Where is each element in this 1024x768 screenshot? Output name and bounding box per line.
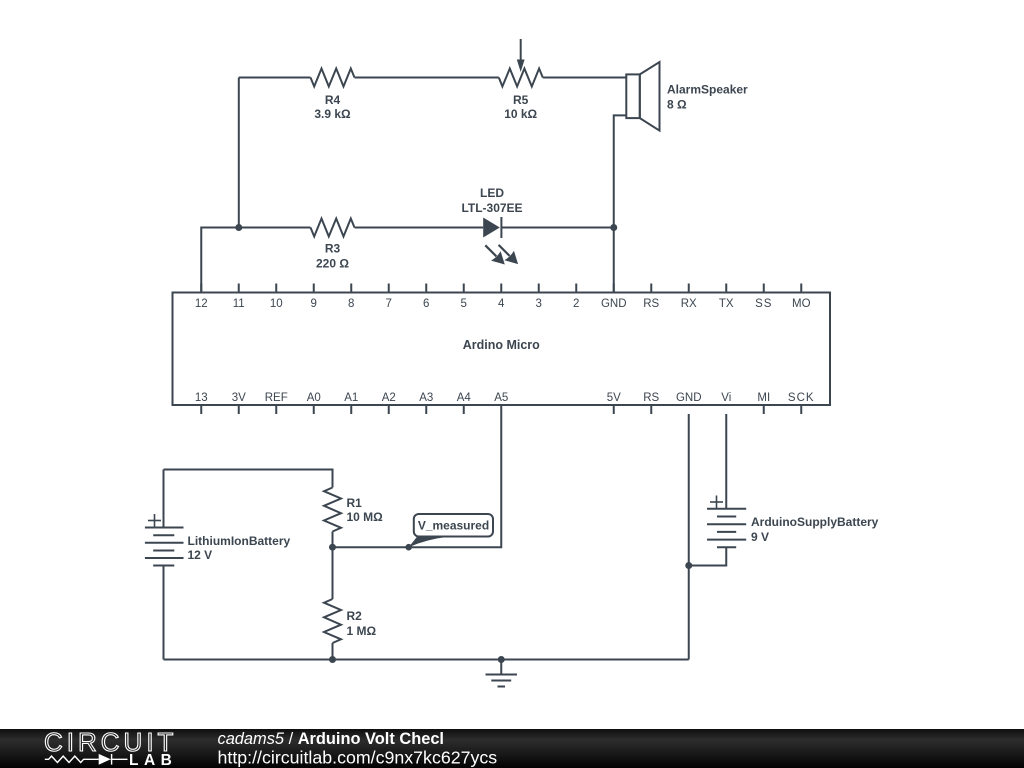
svg-text:RX: RX bbox=[681, 298, 697, 310]
svg-text:SCK: SCK bbox=[788, 392, 815, 404]
svg-text:R3: R3 bbox=[325, 242, 341, 256]
battery V1 top lead bbox=[163, 470, 165, 528]
svg-text:R4: R4 bbox=[325, 93, 341, 107]
svg-text:13: 13 bbox=[195, 392, 208, 404]
bottom rail bbox=[164, 659, 689, 661]
svg-text:4: 4 bbox=[498, 298, 505, 310]
svg-text:R2: R2 bbox=[347, 609, 363, 623]
svg-text:TX: TX bbox=[719, 298, 734, 310]
svg-text:10 MΩ: 10 MΩ bbox=[347, 510, 384, 524]
plus V1 bbox=[148, 520, 161, 522]
LED D1 cathode bar bbox=[500, 217, 502, 238]
svg-text:5V: 5V bbox=[607, 392, 621, 404]
node V_measured tap bbox=[405, 544, 412, 551]
svg-text:A3: A3 bbox=[419, 392, 433, 404]
potentiometer R5 wiper arrow bbox=[520, 39, 522, 62]
node R2 bottom bbox=[329, 656, 336, 663]
IC U1 pin stubs top bbox=[201, 284, 801, 293]
ground symbol stem bbox=[500, 660, 502, 675]
V_measured flag box bbox=[414, 514, 493, 537]
resistor R4 bbox=[311, 69, 355, 87]
svg-text:SS: SS bbox=[755, 298, 772, 310]
wire node to R3 bbox=[239, 227, 311, 229]
resistor R3 bbox=[311, 219, 355, 237]
LED D1 triangle bbox=[483, 218, 500, 238]
wire R3 to LED bbox=[355, 227, 484, 229]
svg-text:GND: GND bbox=[676, 392, 702, 404]
svg-text:LithiumIonBattery: LithiumIonBattery bbox=[188, 534, 291, 548]
svg-text:A0: A0 bbox=[307, 392, 321, 404]
svg-text:1 MΩ: 1 MΩ bbox=[347, 624, 377, 638]
svg-text:12: 12 bbox=[195, 298, 208, 310]
pin labels bottom bbox=[195, 392, 815, 404]
wire R2 to bottom rail bbox=[332, 643, 334, 660]
svg-text:A1: A1 bbox=[344, 392, 358, 404]
node ground bbox=[498, 656, 505, 663]
footer bar bbox=[0, 729, 1024, 768]
wire R4 to R5 bbox=[355, 77, 499, 79]
svg-text:R5: R5 bbox=[513, 93, 529, 107]
speaker SPK1 horn bbox=[640, 62, 660, 131]
svg-text:9 V: 9 V bbox=[751, 530, 769, 544]
svg-text:9: 9 bbox=[311, 298, 317, 310]
svg-text:Vi: Vi bbox=[721, 392, 731, 404]
node dots bbox=[235, 224, 692, 663]
svg-text:GND: GND bbox=[601, 298, 627, 310]
svg-text:7: 7 bbox=[386, 298, 392, 310]
svg-text:http://circuitlab.com/c9nx7kc6: http://circuitlab.com/c9nx7kc627ycs bbox=[218, 748, 498, 768]
battery V2 plates bbox=[707, 508, 746, 510]
V_measured flag pointer bbox=[409, 537, 448, 547]
svg-text:LED: LED bbox=[480, 186, 504, 200]
speaker SPK1 body bbox=[626, 74, 640, 118]
wire LED to GND column bbox=[501, 227, 613, 229]
svg-text:RS: RS bbox=[643, 392, 659, 404]
node R4/R3 left bbox=[235, 224, 242, 231]
wire top rail left segment bbox=[239, 77, 311, 79]
svg-text:Ardino Micro: Ardino Micro bbox=[463, 338, 540, 352]
LED D1 emission arrow 1 bbox=[485, 245, 505, 264]
svg-text:AlarmSpeaker: AlarmSpeaker bbox=[667, 83, 748, 97]
svg-text:8 Ω: 8 Ω bbox=[667, 98, 687, 112]
potentiometer R5 bbox=[499, 69, 543, 87]
svg-text:RS: RS bbox=[643, 298, 659, 310]
wire A5 down bbox=[333, 405, 502, 547]
logo resistor-diode glyph bbox=[45, 754, 128, 765]
svg-text:V_measured: V_measured bbox=[418, 519, 489, 533]
svg-text:A4: A4 bbox=[457, 392, 472, 404]
resistor R1 bbox=[324, 488, 341, 532]
battery V1 bottom lead bbox=[163, 566, 165, 660]
svg-text:LAB: LAB bbox=[129, 752, 177, 768]
svg-text:A2: A2 bbox=[382, 392, 396, 404]
svg-text:2: 2 bbox=[573, 298, 579, 310]
svg-text:10 kΩ: 10 kΩ bbox=[504, 107, 537, 121]
LED D1 emission arrow 2 bbox=[499, 245, 518, 264]
plus V2 bbox=[710, 501, 723, 503]
svg-text:3: 3 bbox=[536, 298, 542, 310]
svg-text:MO: MO bbox=[792, 298, 811, 310]
node battery V2 return bbox=[685, 562, 692, 569]
svg-text:8: 8 bbox=[348, 298, 354, 310]
svg-text:A5: A5 bbox=[494, 392, 508, 404]
svg-text:3.9 kΩ: 3.9 kΩ bbox=[314, 107, 351, 121]
svg-text:220 Ω: 220 Ω bbox=[316, 257, 349, 271]
battery plus signs bbox=[148, 496, 723, 528]
svg-text:11: 11 bbox=[233, 298, 245, 310]
pin labels top bbox=[195, 298, 811, 310]
wire R5 to speaker bbox=[543, 77, 627, 79]
battery V1 plates bbox=[145, 527, 184, 529]
wire GND column down to pin GND bbox=[613, 228, 615, 293]
wire Vi pin down bbox=[725, 414, 727, 509]
svg-text:6: 6 bbox=[423, 298, 429, 310]
battery V2 bottom lead bbox=[689, 547, 727, 565]
wire junction to R2 bbox=[332, 547, 334, 599]
IC U1 Ardino Micro box bbox=[173, 293, 831, 406]
svg-text:MI: MI bbox=[757, 392, 770, 404]
resistor R2 bbox=[324, 599, 341, 643]
svg-text:12 V: 12 V bbox=[188, 548, 213, 562]
svg-text:ArduinoSupplyBattery: ArduinoSupplyBattery bbox=[751, 515, 879, 529]
wire top rail battery to R1 bbox=[164, 470, 333, 488]
svg-text:cadams5 / Arduino Volt Checl: cadams5 / Arduino Volt Checl bbox=[218, 730, 445, 748]
svg-text:10: 10 bbox=[270, 298, 283, 310]
node R1/R2 junction bbox=[329, 544, 336, 551]
wire speaker bottom to GND column bbox=[614, 115, 627, 227]
svg-text:REF: REF bbox=[265, 392, 288, 404]
wire R1 to junction bbox=[332, 532, 334, 548]
ground symbol bars bbox=[486, 674, 518, 676]
wire left vertical from R4 down bbox=[238, 78, 240, 228]
wire GND pin down bbox=[688, 414, 690, 660]
svg-text:R1: R1 bbox=[347, 496, 363, 510]
svg-text:LTL-307EE: LTL-307EE bbox=[461, 201, 522, 215]
svg-text:5: 5 bbox=[461, 298, 467, 310]
node LED/GND column bbox=[610, 224, 617, 231]
svg-text:3V: 3V bbox=[232, 392, 246, 404]
IC U1 pin stubs bottom bbox=[201, 405, 801, 414]
wire node to pin 12 bbox=[201, 228, 239, 293]
